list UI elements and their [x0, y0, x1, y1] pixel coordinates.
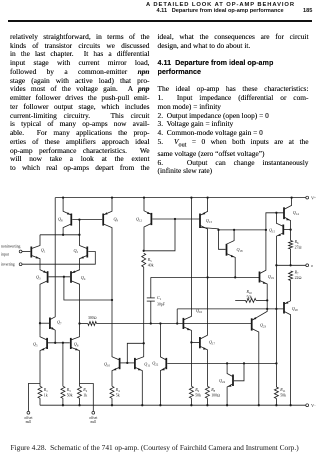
svg-text:null: null: [91, 420, 97, 424]
svg-text:R7: R7: [294, 270, 299, 276]
node R2 bottom: [78, 404, 80, 406]
transistor Q12: [150, 213, 152, 225]
resistor R4 5k: [110, 386, 114, 398]
svg-text:C1: C1: [157, 295, 162, 301]
capacitor C1 30pF: [150, 277, 152, 298]
svg-text:R11: R11: [279, 387, 286, 393]
transistor Q17: [199, 337, 201, 348]
node Q16 collector on V+ rail: [190, 196, 192, 198]
svg-text:inverting: inverting: [1, 262, 15, 266]
svg-text:Q11: Q11: [144, 361, 150, 367]
node Q13 emitter on V+ rail: [206, 196, 208, 198]
wire Q4/Q6 collector node to 300 ohm: [80, 323, 88, 325]
node Q11 emitter: [141, 404, 143, 406]
transistor Q7: [49, 318, 51, 330]
transistor Q4: [70, 271, 72, 283]
resistor R3 50k: [61, 386, 65, 398]
wire inverting input line to Q2 base: [22, 252, 95, 265]
wire Q3 base to Q4 base: [49, 276, 70, 278]
svg-text:Q1: Q1: [41, 248, 46, 254]
transistor Q8: [70, 214, 72, 226]
node Q12 emitter on V+ rail: [143, 196, 145, 198]
transistor Q2: [86, 247, 88, 258]
terminal V+: [306, 196, 309, 199]
svg-text:o: o: [311, 263, 313, 268]
node Q23 collector: [258, 404, 260, 406]
transistor Q14: [283, 207, 285, 219]
wire Q18 base: [219, 230, 226, 249]
svg-text:R1: R1: [43, 387, 48, 393]
node Q15 base junction: [289, 228, 291, 230]
node C1 bottom junction: [150, 322, 152, 324]
node Q8 base tie: [78, 218, 80, 220]
wire offset null 1 stub: [28, 384, 40, 412]
node Q17 collector junction: [206, 276, 208, 278]
node R8 bottom: [206, 404, 208, 406]
wire offset null 2 stub: [80, 384, 94, 412]
transistor Q20: [283, 302, 285, 314]
node R4 bottom: [111, 404, 113, 406]
wire Q24 base tie: [234, 363, 244, 380]
svg-text:50k: 50k: [280, 393, 286, 397]
wire Q8 base-collector tie: [78, 220, 80, 235]
svg-text:27Ω: 27Ω: [295, 245, 302, 249]
resistor R6 27ohm: [289, 241, 293, 250]
transistor Q13: [199, 214, 201, 229]
svg-text:R6: R6: [294, 239, 299, 245]
transistor Q10: [119, 358, 121, 369]
wire Q7 base to Q3/Q5 collector column: [40, 322, 49, 324]
wire Q15 base to Q14 emitter: [284, 229, 291, 231]
wire Q5 base to Q6 base: [48, 342, 70, 344]
node Q18 emitter junction: [234, 276, 236, 278]
wire 300 ohm to Q16 base and Q23 base: [97, 323, 252, 325]
svg-text:50k: 50k: [247, 295, 253, 299]
terminal noninverting input: [19, 250, 22, 253]
wire Q20 base line: [177, 308, 283, 310]
node R9 bottom: [190, 404, 192, 406]
transistor Q11: [134, 358, 136, 369]
transistor Q23: [251, 318, 253, 330]
svg-text:1k: 1k: [44, 393, 48, 397]
node R11 column on base line: [275, 308, 277, 310]
resistor R8 100ohm: [205, 386, 209, 398]
wire R3 column: [62, 343, 64, 387]
node Q24 emitter: [226, 404, 228, 406]
node Q12 base loop junction: [174, 218, 176, 220]
svg-text:Q7: Q7: [57, 320, 62, 326]
node Q11 collector tie: [143, 342, 145, 344]
svg-text:Q6: Q6: [74, 342, 79, 348]
node bias line right corner: [265, 229, 267, 231]
node Q15 collector on Q14 base line: [275, 212, 277, 214]
svg-text:input: input: [1, 253, 10, 257]
node Q17 base junction: [190, 341, 192, 343]
wire Q20 base line corner down to Q16 base line: [176, 309, 178, 324]
svg-text:30pF: 30pF: [157, 302, 165, 306]
svg-text:300Ω: 300Ω: [88, 316, 97, 320]
node Q13 collector 2 / Q18 base junction: [217, 229, 219, 231]
wire Q9 collector column to Q10 collector: [111, 300, 113, 356]
wire Q12 base-collector loop: [144, 219, 175, 251]
svg-text:V−: V−: [311, 403, 316, 408]
node Q20 collector: [289, 404, 291, 406]
svg-text:Q14: Q14: [293, 210, 300, 216]
wire V+ drop to Q7 collector: [54, 198, 56, 316]
node Q8 collector junction: [62, 234, 64, 236]
svg-text:100Ω: 100Ω: [211, 393, 220, 397]
svg-text:Q19: Q19: [268, 274, 275, 280]
node Q7 emitter junction: [54, 342, 56, 344]
node Q18 collector junction: [233, 229, 235, 231]
node Q9 collector / Q10 collector junction: [111, 299, 113, 301]
node Q24 base tie junction: [243, 362, 245, 364]
svg-text:Q15: Q15: [269, 228, 276, 234]
node Q10/Q11 base junction: [126, 362, 128, 364]
svg-text:R5: R5: [147, 257, 152, 263]
node R3 top junction: [62, 342, 64, 344]
svg-text:22Ω: 22Ω: [295, 276, 302, 280]
wire Q17 collector line (C1 top net): [151, 276, 259, 278]
node Q15 emitter on output line: [275, 264, 277, 266]
wire Q1/Q2 collectors to Q8 collector: [40, 234, 80, 236]
svg-text:noninverting: noninverting: [1, 244, 21, 248]
transistor Q16: [182, 318, 184, 329]
transistor Q5: [46, 338, 48, 349]
node Q7 base junction: [39, 322, 41, 324]
svg-text:Q23: Q23: [260, 323, 267, 329]
node Q22 collector junction: [159, 322, 161, 324]
terminal inverting input: [19, 263, 22, 266]
svg-text:Q8: Q8: [58, 216, 63, 222]
transistor Q22: [165, 358, 167, 369]
node Q19 emitter on base line: [266, 308, 268, 310]
wire Q14 base line: [266, 213, 284, 230]
wire Q10/Q11 base tie: [120, 362, 134, 364]
node Q14 collector on V+ rail: [290, 196, 292, 198]
svg-text:Q9: Q9: [114, 216, 119, 222]
node output junction: [289, 264, 291, 266]
svg-text:Q17: Q17: [209, 340, 216, 346]
svg-text:Q22: Q22: [152, 361, 159, 367]
svg-text:Q24: Q24: [219, 378, 226, 384]
svg-text:R9: R9: [194, 387, 199, 393]
node R11 bottom: [275, 404, 277, 406]
svg-text:Q2: Q2: [74, 248, 79, 254]
wire R5 bottom to Q11 collector: [143, 267, 145, 343]
svg-text:Q5: Q5: [33, 342, 38, 348]
resistor R11 50k: [274, 387, 278, 399]
node R3 bottom: [62, 404, 64, 406]
node Q24 collector junction: [226, 362, 228, 364]
svg-text:Q20: Q20: [292, 306, 299, 312]
resistor R10 50k: [235, 299, 245, 301]
resistor R1 1k: [38, 386, 42, 398]
wire R6 bottom to output line: [290, 249, 292, 265]
node 300 ohm line start: [78, 322, 80, 324]
transistor Q3: [47, 271, 49, 283]
svg-text:Q13: Q13: [206, 218, 213, 224]
terminal offset null 2: [92, 411, 95, 414]
resistor R2 1k: [78, 386, 82, 398]
svg-text:1k: 1k: [83, 393, 87, 397]
wire output line: [276, 264, 305, 266]
node Q22 emitter: [159, 404, 161, 406]
wire Q12 base to Q13 base: [152, 218, 199, 220]
svg-text:Q3: Q3: [36, 274, 41, 280]
wire Q8 base to Q9 base: [72, 219, 102, 221]
wire Q17 base to Q16 emitter: [191, 341, 199, 343]
wire noninverting input to Q1 base: [22, 251, 30, 253]
transistor Q19: [259, 272, 261, 283]
wire R7 bottom to Q20 emitter: [290, 281, 292, 300]
resistor R7 22ohm: [289, 271, 293, 281]
transistor Q9: [102, 214, 104, 226]
node Q9 emitter on V+ rail: [111, 196, 113, 198]
transistor Q18: [226, 244, 228, 256]
wire R1 bottom to V- rail: [39, 398, 41, 405]
node Q8 emitter on V+ rail: [62, 196, 64, 198]
svg-text:5k: 5k: [116, 393, 120, 397]
svg-text:Q4: Q4: [81, 275, 86, 281]
svg-text:R2: R2: [82, 387, 87, 393]
terminal offset null 1: [27, 411, 30, 414]
wire base node down and right to Q9/Q10 collectors: [64, 277, 112, 300]
node Q3/Q4 base junction: [63, 276, 65, 278]
svg-text:50k: 50k: [67, 393, 73, 397]
wire V- rail: [40, 404, 306, 406]
svg-text:Q10: Q10: [104, 362, 111, 368]
wire bias stack top line: [219, 229, 266, 231]
wire V+ rail: [55, 197, 306, 199]
terminal V-: [306, 404, 309, 407]
svg-text:R8: R8: [210, 387, 215, 393]
resistor 300 ohm: [88, 322, 97, 326]
svg-text:Q12: Q12: [136, 216, 143, 222]
resistor R5 40k: [142, 253, 146, 267]
node Q20 base line corner junction: [176, 322, 178, 324]
node Q2 collector / Q8 base tap junction: [78, 234, 80, 236]
svg-text:50k: 50k: [195, 393, 201, 397]
svg-text:null: null: [26, 420, 32, 424]
wire Q11 base-collector tie: [127, 343, 143, 363]
wire Q22 base line: [167, 362, 276, 364]
transistor Q15: [282, 225, 284, 235]
node Q12 collector / R5 junction: [143, 250, 145, 252]
transistor Q6: [70, 338, 72, 349]
svg-text:V+: V+: [311, 195, 316, 200]
svg-text:Q18: Q18: [237, 247, 244, 253]
svg-text:40k: 40k: [148, 263, 154, 267]
wire Q15 emitter column down to R11: [275, 265, 277, 387]
svg-text:R3: R3: [66, 387, 71, 393]
svg-text:R10: R10: [246, 289, 253, 295]
svg-text:R4: R4: [115, 387, 120, 393]
transistor Q1: [30, 247, 32, 258]
node R10 right junction: [266, 299, 268, 301]
resistor R9 50k: [189, 386, 193, 398]
node Q22 base line end: [275, 362, 277, 364]
terminal output: [306, 264, 309, 267]
transistor Q24: [232, 375, 234, 387]
